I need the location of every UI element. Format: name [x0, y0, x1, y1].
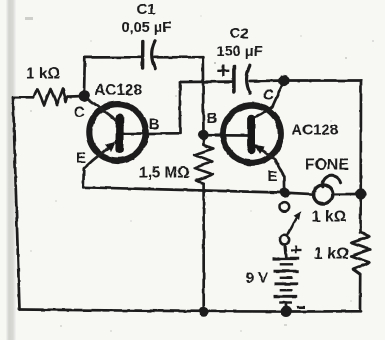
svg-text:FONE: FONE: [305, 157, 349, 174]
wire: top-right rail (C2 plate / Q2 collector node to right rail corner): [279, 79, 362, 82]
svg-text:C: C: [74, 104, 85, 121]
svg-text:1 kΩ: 1 kΩ: [314, 246, 349, 263]
capacitor C2 150 µF left plate: [232, 66, 236, 92]
svg-text:C: C: [263, 87, 274, 104]
battery minus sign: [297, 306, 306, 309]
svg-text:1 kΩ: 1 kΩ: [26, 66, 60, 83]
svg-text:1 kΩ: 1 kΩ: [312, 209, 347, 226]
svg-text:9 V: 9 V: [246, 270, 269, 287]
transistor Q2 emitter lead with arrow (PNP): [259, 148, 275, 159]
wire: Q2 collector path up to node C: [252, 81, 284, 120]
wire: node E to FONE: [285, 193, 314, 195]
wire: FONE to right rail node: [333, 193, 362, 196]
switch S1 moving contact: [280, 235, 289, 244]
wire: left rail (R1 left end down to bottom rail): [13, 97, 20, 309]
resistor R3 1 kΩ (right, vertical): [351, 233, 370, 275]
switch S1 arm with arrowhead: [288, 217, 298, 236]
junction node C (Q2 collector, top right): [278, 75, 289, 86]
transistor Q1 emitter lead with arrow (PNP): [92, 146, 110, 161]
junction node E (emitter rail): [279, 187, 289, 197]
wire: riser C1 corner down to node B2: [201, 57, 204, 135]
resistor R2 1,5 MΩ (vertical): [194, 145, 213, 184]
svg-text:1,5 MΩ: 1,5 MΩ: [139, 165, 190, 182]
wire: R2 bottom lead down to bottom rail (crosses emitter rail): [202, 183, 205, 311]
svg-text:C2: C2: [230, 25, 249, 42]
svg-text:E: E: [76, 150, 86, 167]
transistor Q2 AC128 body circle: [223, 105, 281, 163]
wire: R2 top lead from node B2: [202, 135, 205, 145]
transistor Q2 base bar: [247, 119, 255, 150]
wire: Q2 base lead from node B2: [204, 134, 248, 137]
battery B1 9 V plates: [273, 259, 300, 303]
battery plus sign: [291, 246, 302, 254]
FONE curl hook: [323, 176, 341, 187]
wire: right rail lower (R3 bottom to bottom rail): [359, 275, 362, 312]
wire: riser node A up to C1 left: [83, 57, 87, 96]
svg-text:AC128: AC128: [292, 122, 339, 139]
resistor R1 1 kΩ (left, horizontal): [34, 89, 68, 106]
junction node B2 (Q2 base): [198, 130, 208, 140]
wire: Q1 base lead out to riser: [124, 132, 180, 135]
svg-text:0,05 μF: 0,05 μF: [122, 20, 172, 36]
svg-text:B: B: [207, 110, 218, 127]
capacitor C1 0,05 µF left plate: [141, 42, 145, 68]
wire: right rail upper (top-right corner down to FONE node and R3 top): [359, 81, 362, 233]
C2 polarity + sign: [217, 65, 229, 77]
wire: C2 right plate to node C (crossing): [250, 79, 279, 82]
junction R2 bottom / bottom rail: [199, 306, 209, 316]
wire: Q1 base riser up: [179, 82, 182, 133]
svg-text:AC128: AC128: [95, 82, 143, 99]
wire: C1 right horizontal to corner: [155, 56, 203, 59]
wire: emitter rail from Q1 emitter to node E: [83, 187, 284, 192]
wire: Q1 base to C2 left plate: [180, 80, 232, 83]
svg-text:150 μF: 150 μF: [217, 44, 263, 60]
wire: bottom rail (negative): [20, 310, 362, 312]
switch S1 fixed contact: [280, 202, 289, 211]
wire: battery bottom lead: [285, 303, 288, 312]
svg-text:C1: C1: [137, 1, 156, 18]
junction FONE right / right rail: [355, 188, 366, 199]
wire: R1 left lead: [13, 96, 34, 99]
wire: Q2 emitter path down to node E: [275, 159, 285, 192]
wire: Q1 emitter drop: [83, 161, 92, 188]
FONE earphone body: [314, 185, 333, 204]
capacitor C2 right plate (curved): [247, 65, 250, 93]
svg-text:E: E: [268, 168, 278, 185]
capacitor C1 right plate (curved): [152, 41, 156, 68]
junction battery minus / bottom rail: [280, 306, 291, 317]
wire: switch to battery top: [285, 245, 286, 258]
wire: C1 left horizontal: [85, 56, 141, 59]
transistor Q1 collector lead (from node A): [84, 96, 117, 121]
wire: R1 right lead to node A: [68, 95, 85, 98]
junction node A (Q1 collector): [79, 91, 90, 102]
transistor Q1 AC128 body circle: [89, 104, 145, 160]
svg-text:B: B: [149, 116, 160, 133]
transistor Q1 base bar: [115, 118, 123, 150]
